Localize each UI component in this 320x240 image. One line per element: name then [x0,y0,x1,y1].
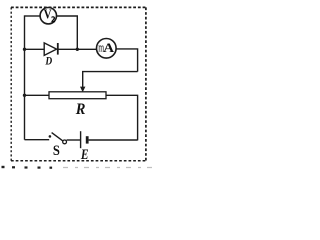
dashed boundary box bottom edge [11,160,146,162]
rheostat slider arrowhead [80,87,85,93]
svg-text:S: S [53,143,60,159]
svg-text:2: 2 [51,15,55,24]
node junction dot [23,94,26,97]
milliammeter mA [97,39,117,59]
svg-text:D: D [45,54,53,68]
dashed boundary box top edge [11,6,147,8]
voltmeter V2 [40,7,56,24]
wire bottom left [25,139,50,141]
battery E [80,131,89,163]
svg-text:R: R [75,101,86,118]
wire [25,94,50,96]
wire [67,139,81,141]
wire [116,49,138,72]
wire left rail [24,15,26,139]
faint scan streak below box [63,167,157,169]
node junction dot [76,48,79,51]
wire bottom right [89,139,138,141]
stray scan marks below box [2,166,53,169]
wire [106,95,138,140]
dashed boundary box left edge [10,7,12,161]
svg-text:A: A [103,41,115,55]
diode D [44,43,58,68]
resistor R [49,92,106,118]
wire [57,16,78,49]
wire [58,48,97,50]
svg-text:E: E [80,147,89,163]
wire [25,48,45,50]
switch S [49,133,67,160]
wire rheostat slider lead [83,72,138,88]
dashed boundary box right edge [145,7,147,161]
node junction dot [23,48,26,51]
wire [25,15,40,17]
